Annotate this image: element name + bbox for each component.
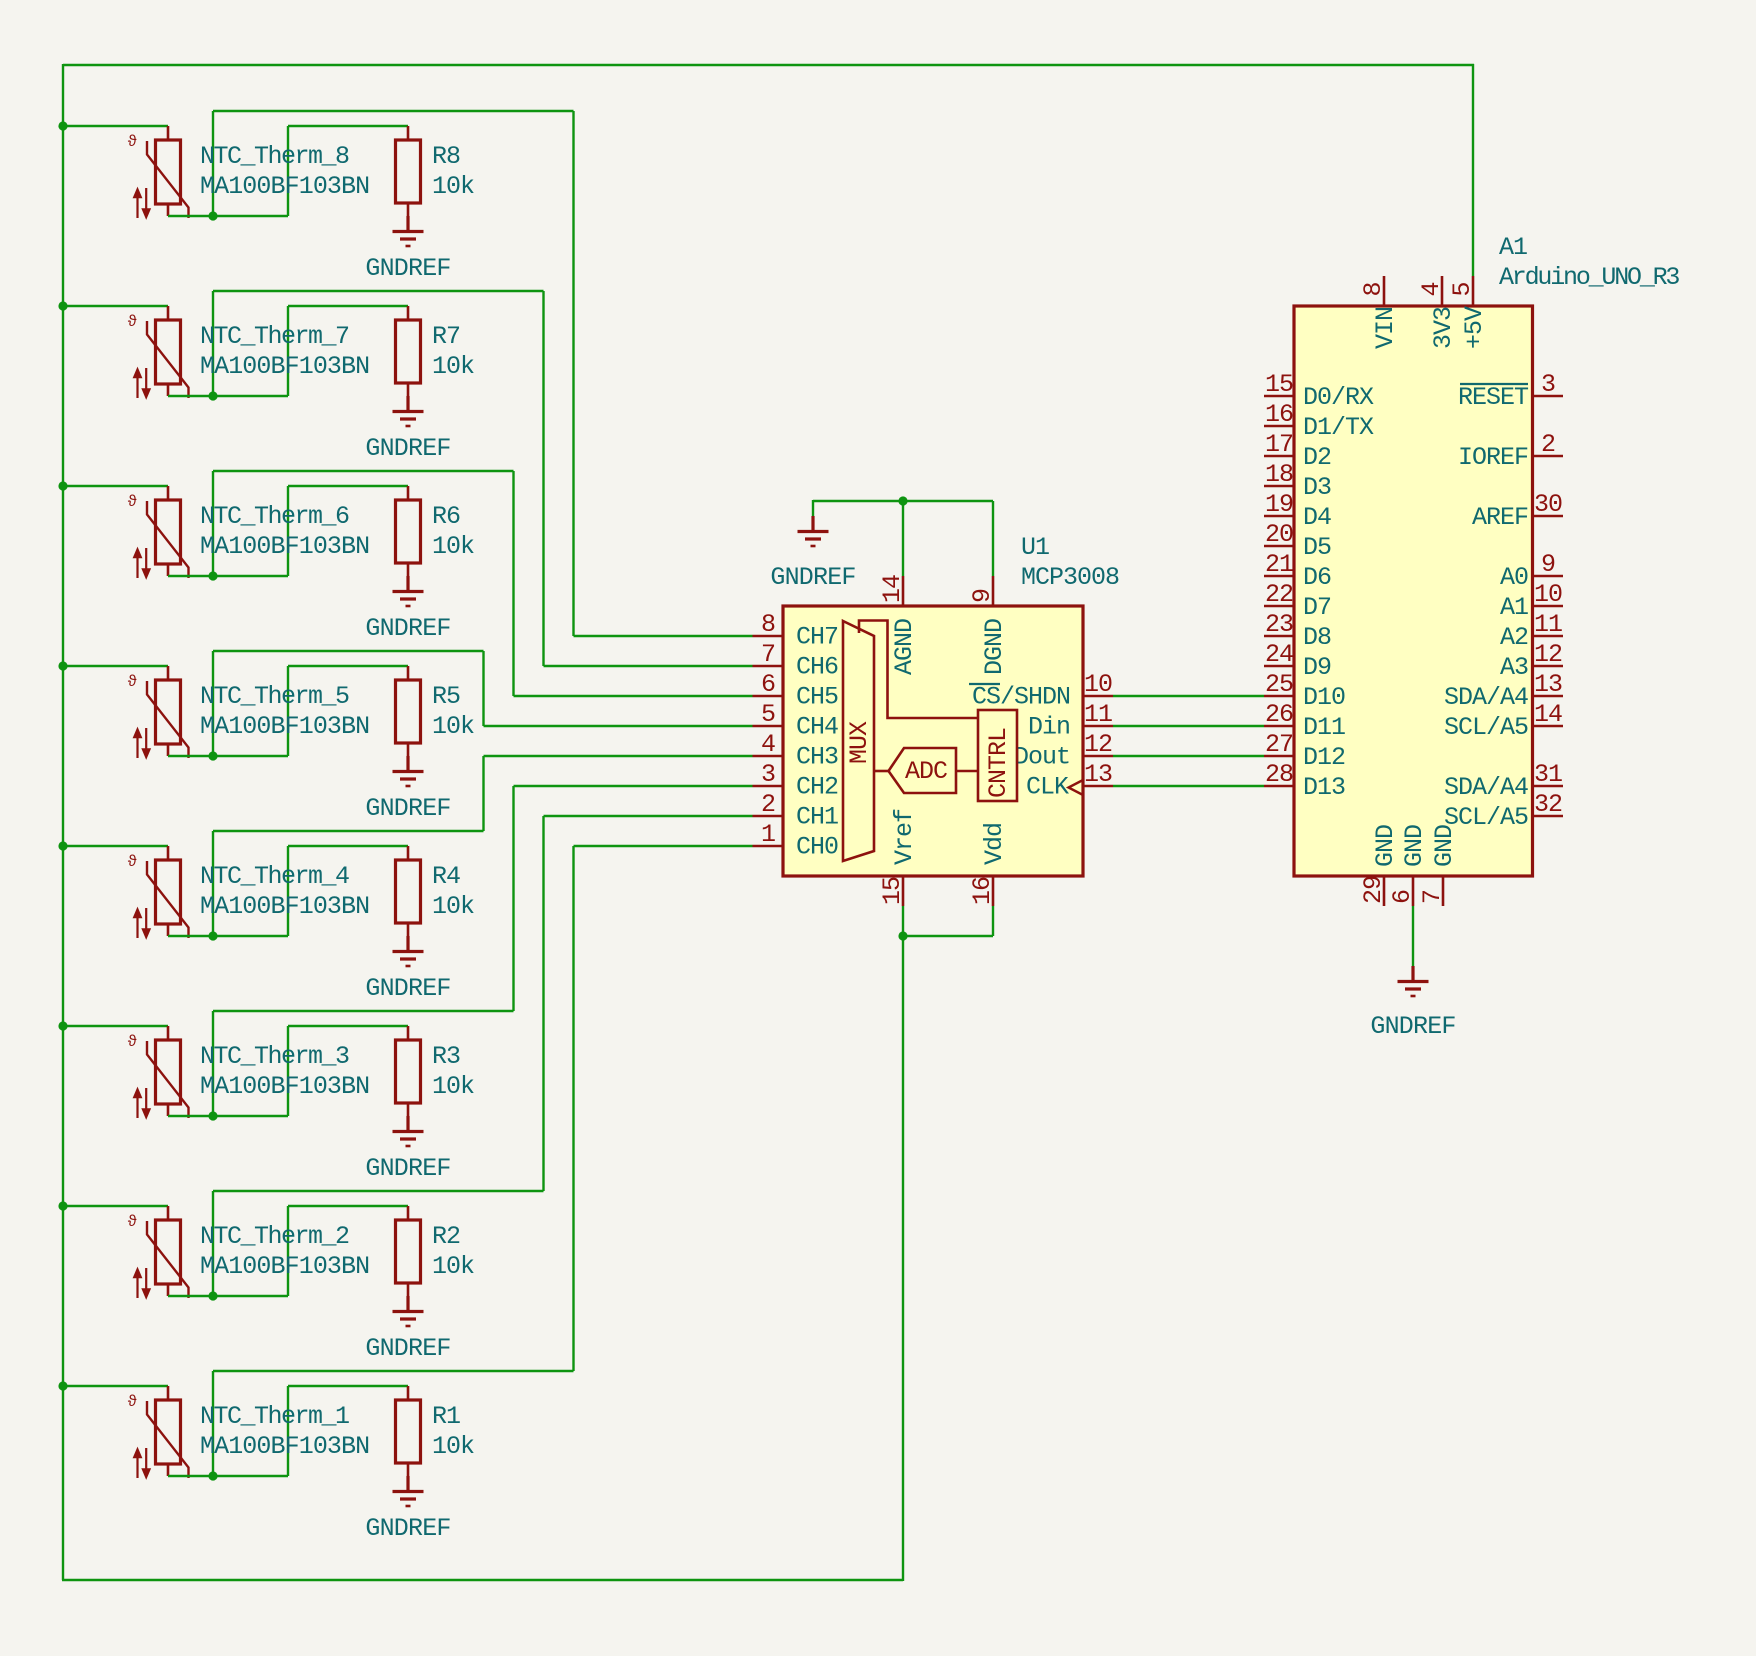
svg-text:10: 10 — [1084, 670, 1112, 699]
svg-text:ϑ: ϑ — [128, 1033, 138, 1051]
svg-text:10k: 10k — [432, 1432, 474, 1461]
svg-text:GND: GND — [1400, 825, 1429, 867]
svg-text:D8: D8 — [1303, 623, 1331, 652]
svg-text:21: 21 — [1265, 550, 1293, 579]
svg-text:ϑ: ϑ — [128, 1393, 138, 1411]
svg-text:ϑ: ϑ — [128, 673, 138, 691]
svg-text:6: 6 — [761, 670, 775, 699]
svg-text:12: 12 — [1534, 640, 1562, 669]
svg-text:8: 8 — [761, 610, 775, 639]
svg-text:15: 15 — [878, 877, 907, 905]
svg-text:MA100BF103BN: MA100BF103BN — [200, 1252, 369, 1281]
svg-text:CH2: CH2 — [796, 773, 838, 802]
svg-text:1: 1 — [761, 820, 775, 849]
svg-text:MA100BF103BN: MA100BF103BN — [200, 1432, 369, 1461]
svg-text:5: 5 — [761, 700, 775, 729]
svg-text:NTC_Therm_2: NTC_Therm_2 — [200, 1222, 349, 1251]
svg-text:14: 14 — [1534, 700, 1562, 729]
svg-text:7: 7 — [1418, 890, 1447, 904]
svg-text:8: 8 — [1359, 282, 1388, 296]
svg-text:10: 10 — [1534, 580, 1562, 609]
svg-text:10k: 10k — [432, 892, 474, 921]
svg-text:D5: D5 — [1303, 533, 1331, 562]
svg-text:D1/TX: D1/TX — [1303, 413, 1374, 442]
svg-text:12: 12 — [1084, 730, 1112, 759]
svg-text:GNDREF: GNDREF — [365, 1514, 450, 1543]
svg-text:AGND: AGND — [890, 619, 919, 675]
svg-text:D0/RX: D0/RX — [1303, 383, 1374, 412]
svg-text:RESET: RESET — [1458, 383, 1529, 412]
svg-text:D12: D12 — [1303, 743, 1345, 772]
svg-text:GNDREF: GNDREF — [365, 1154, 450, 1183]
svg-text:28: 28 — [1265, 760, 1293, 789]
svg-text:R6: R6 — [432, 502, 460, 531]
svg-text:GNDREF: GNDREF — [770, 563, 855, 592]
svg-text:D2: D2 — [1303, 443, 1331, 472]
svg-text:MCP3008: MCP3008 — [1021, 563, 1119, 592]
svg-text:Din: Din — [1028, 713, 1070, 742]
svg-text:D4: D4 — [1303, 503, 1331, 532]
svg-text:D3: D3 — [1303, 473, 1331, 502]
svg-text:GNDREF: GNDREF — [1370, 1012, 1455, 1041]
svg-text:CH3: CH3 — [796, 743, 838, 772]
svg-text:CH6: CH6 — [796, 653, 838, 682]
svg-text:3: 3 — [761, 760, 775, 789]
svg-text:CH7: CH7 — [796, 623, 838, 652]
svg-text:SCL/A5: SCL/A5 — [1444, 713, 1528, 742]
svg-text:25: 25 — [1265, 670, 1293, 699]
svg-text:CH4: CH4 — [796, 713, 838, 742]
svg-text:MA100BF103BN: MA100BF103BN — [200, 892, 369, 921]
svg-text:MUX: MUX — [845, 721, 874, 764]
svg-text:2: 2 — [761, 790, 775, 819]
svg-text:16: 16 — [1265, 400, 1293, 429]
svg-text:MA100BF103BN: MA100BF103BN — [200, 532, 369, 561]
svg-text:A1: A1 — [1499, 233, 1527, 262]
svg-text:SDA/A4: SDA/A4 — [1444, 683, 1528, 712]
svg-text:NTC_Therm_7: NTC_Therm_7 — [200, 322, 349, 351]
svg-text:9: 9 — [968, 589, 997, 603]
svg-text:SDA/A4: SDA/A4 — [1444, 773, 1528, 802]
svg-text:A2: A2 — [1500, 623, 1528, 652]
svg-text:10k: 10k — [432, 1252, 474, 1281]
svg-text:32: 32 — [1534, 790, 1562, 819]
svg-text:16: 16 — [968, 877, 997, 905]
svg-text:5: 5 — [1448, 282, 1477, 296]
svg-text:R3: R3 — [432, 1042, 460, 1071]
svg-text:11: 11 — [1534, 610, 1562, 639]
svg-text:17: 17 — [1265, 430, 1293, 459]
svg-text:ϑ: ϑ — [128, 853, 138, 871]
svg-text:NTC_Therm_1: NTC_Therm_1 — [200, 1402, 349, 1431]
svg-text:15: 15 — [1265, 370, 1293, 399]
svg-text:ϑ: ϑ — [128, 1213, 138, 1231]
svg-text:NTC_Therm_8: NTC_Therm_8 — [200, 142, 349, 171]
svg-text:A0: A0 — [1500, 563, 1528, 592]
svg-text:ϑ: ϑ — [128, 493, 138, 511]
svg-text:10k: 10k — [432, 352, 474, 381]
svg-text:D10: D10 — [1303, 683, 1345, 712]
svg-text:GNDREF: GNDREF — [365, 434, 450, 463]
svg-text:Vref: Vref — [890, 809, 919, 865]
svg-text:2: 2 — [1541, 430, 1555, 459]
svg-text:R4: R4 — [432, 862, 460, 891]
svg-text:23: 23 — [1265, 610, 1293, 639]
svg-text:10k: 10k — [432, 712, 474, 741]
svg-text:11: 11 — [1084, 700, 1112, 729]
svg-text:18: 18 — [1265, 460, 1293, 489]
svg-text:3V3: 3V3 — [1429, 307, 1458, 349]
svg-text:A1: A1 — [1500, 593, 1528, 622]
svg-text:GNDREF: GNDREF — [365, 614, 450, 643]
svg-text:VIN: VIN — [1371, 307, 1400, 349]
svg-text:9: 9 — [1541, 550, 1555, 579]
svg-text:U1: U1 — [1021, 533, 1049, 562]
svg-text:13: 13 — [1084, 760, 1112, 789]
svg-text:R5: R5 — [432, 682, 460, 711]
svg-text:D13: D13 — [1303, 773, 1345, 802]
svg-text:GNDREF: GNDREF — [365, 794, 450, 823]
svg-text:26: 26 — [1265, 700, 1293, 729]
svg-text:GNDREF: GNDREF — [365, 254, 450, 283]
svg-text:19: 19 — [1265, 490, 1293, 519]
svg-text:ϑ: ϑ — [128, 313, 138, 331]
svg-text:Vdd: Vdd — [980, 823, 1009, 865]
svg-text:CH5: CH5 — [796, 683, 838, 712]
svg-text:10k: 10k — [432, 1072, 474, 1101]
svg-text:GNDREF: GNDREF — [365, 1334, 450, 1363]
svg-text:GNDREF: GNDREF — [365, 974, 450, 1003]
svg-text:22: 22 — [1265, 580, 1293, 609]
svg-text:GND: GND — [1430, 825, 1459, 867]
svg-text:14: 14 — [878, 575, 907, 603]
svg-text:31: 31 — [1534, 760, 1562, 789]
svg-text:NTC_Therm_3: NTC_Therm_3 — [200, 1042, 349, 1071]
svg-text:A3: A3 — [1500, 653, 1528, 682]
svg-text:CLK: CLK — [1026, 773, 1069, 802]
svg-text:AREF: AREF — [1472, 503, 1528, 532]
svg-text:3: 3 — [1541, 370, 1555, 399]
svg-text:Dout: Dout — [1014, 743, 1070, 772]
svg-text:27: 27 — [1265, 730, 1293, 759]
svg-text:MA100BF103BN: MA100BF103BN — [200, 172, 369, 201]
svg-text:+5V: +5V — [1460, 306, 1489, 349]
svg-text:NTC_Therm_6: NTC_Therm_6 — [200, 502, 349, 531]
svg-text:D7: D7 — [1303, 593, 1331, 622]
svg-text:R1: R1 — [432, 1402, 460, 1431]
svg-text:20: 20 — [1265, 520, 1293, 549]
svg-text:10k: 10k — [432, 172, 474, 201]
svg-text:CS/SHDN: CS/SHDN — [972, 683, 1070, 712]
svg-text:30: 30 — [1534, 490, 1562, 519]
svg-text:R7: R7 — [432, 322, 460, 351]
svg-text:NTC_Therm_4: NTC_Therm_4 — [200, 862, 349, 891]
svg-text:MA100BF103BN: MA100BF103BN — [200, 1072, 369, 1101]
svg-text:MA100BF103BN: MA100BF103BN — [200, 352, 369, 381]
svg-text:13: 13 — [1534, 670, 1562, 699]
svg-text:ADC: ADC — [905, 757, 947, 786]
svg-text:4: 4 — [761, 730, 775, 759]
svg-text:DGND: DGND — [980, 619, 1009, 675]
svg-text:7: 7 — [761, 640, 775, 669]
svg-text:10k: 10k — [432, 532, 474, 561]
svg-text:24: 24 — [1265, 640, 1293, 669]
svg-text:D6: D6 — [1303, 563, 1331, 592]
svg-text:D9: D9 — [1303, 653, 1331, 682]
svg-text:29: 29 — [1359, 876, 1388, 904]
svg-text:MA100BF103BN: MA100BF103BN — [200, 712, 369, 741]
svg-text:ϑ: ϑ — [128, 133, 138, 151]
svg-text:CH1: CH1 — [796, 803, 838, 832]
svg-text:GND: GND — [1371, 825, 1400, 867]
svg-text:6: 6 — [1388, 890, 1417, 904]
svg-text:4: 4 — [1417, 282, 1446, 296]
svg-text:CNTRL: CNTRL — [984, 728, 1013, 798]
svg-text:Arduino_UNO_R3: Arduino_UNO_R3 — [1499, 263, 1679, 292]
svg-text:D11: D11 — [1303, 713, 1345, 742]
svg-text:R2: R2 — [432, 1222, 460, 1251]
svg-text:IOREF: IOREF — [1458, 443, 1528, 472]
svg-text:CH0: CH0 — [796, 833, 838, 862]
svg-text:NTC_Therm_5: NTC_Therm_5 — [200, 682, 349, 711]
svg-text:R8: R8 — [432, 142, 460, 171]
